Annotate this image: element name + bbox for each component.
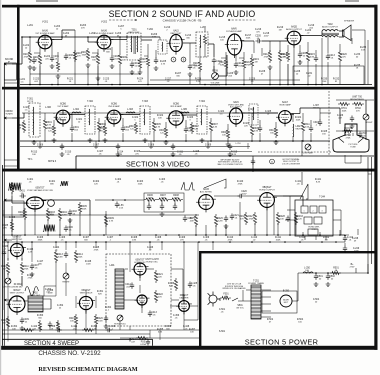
svg-text:SPEAKER: SPEAKER: [344, 20, 355, 23]
svg-text:12K: 12K: [94, 183, 98, 185]
wire section5 B+ out to yoke lines: [340, 264, 368, 273]
resistor R316: [134, 122, 137, 134]
terminal box row2 b: [314, 217, 322, 224]
potentiometer R412 vert hold: [5, 278, 11, 284]
waveform sync pulse W1: [8, 183, 21, 191]
ground under C501: [314, 282, 319, 286]
capacitor C314: [171, 144, 175, 150]
svg-text:1M: 1M: [191, 220, 194, 222]
svg-text:2.2K: 2.2K: [28, 251, 33, 253]
resistor R702: [352, 102, 364, 105]
speaker LS201: [342, 25, 351, 41]
section5 box top border: [199, 251, 378, 253]
svg-text:L-304: L-304: [73, 109, 80, 111]
capacitor C249: [343, 246, 347, 252]
resistor R216: [73, 50, 76, 62]
tube V402 6SN7 vertical oscillator: [8, 244, 26, 260]
svg-text:100K: 100K: [174, 197, 179, 199]
svg-text:4.7K: 4.7K: [109, 220, 114, 222]
svg-text:.0047: .0047: [241, 193, 247, 195]
wire V202 grid lead: [88, 41, 97, 43]
svg-text:L-204: L-204: [89, 33, 96, 35]
svg-text:L-303: L-303: [127, 109, 134, 111]
wire T201 to V203: [141, 39, 152, 41]
tube V205 6AQ5 audio output: [285, 31, 304, 48]
svg-text:RATIO DET: RATIO DET: [129, 31, 141, 34]
wire V205 plate to T202: [301, 35, 322, 37]
capacitor C421: [230, 214, 234, 220]
resistor R501: [330, 271, 341, 274]
coil T303: [143, 109, 146, 125]
capacitor C405: [173, 204, 177, 210]
wire video out to sweep tap: [320, 112, 331, 114]
resistor R302: [52, 124, 55, 136]
test point A: [171, 57, 176, 62]
resistor R310: [274, 126, 277, 138]
svg-text:2ND SOUND IF AMP: 2ND SOUND IF AMP: [94, 32, 114, 35]
wire V305 plate to CRT: [291, 113, 300, 115]
svg-text:1ST SOUND IF AMP: 1ST SOUND IF AMP: [35, 32, 55, 35]
svg-text:10K: 10K: [190, 331, 194, 333]
svg-text:8.2K: 8.2K: [232, 154, 237, 156]
svg-text:220K: 220K: [78, 256, 83, 258]
svg-text:2: 2: [313, 211, 314, 213]
transformer T303 dashed can: [140, 106, 150, 134]
capacitor C210: [130, 62, 134, 68]
tube V409 6BQ6 horizontal output: [257, 193, 277, 211]
unit T244 deflection box: [295, 200, 333, 236]
ground under C314: [171, 152, 176, 156]
svg-text:ON VOL: ON VOL: [236, 307, 245, 309]
wire B+ bus section2: [20, 84, 372, 86]
svg-text:10K: 10K: [222, 134, 226, 136]
coil L303: [126, 112, 135, 113]
wire vert osc couplings: [8, 235, 22, 286]
resistor R419: [74, 314, 77, 326]
wire sweep mid verticals2: [43, 279, 86, 330]
svg-text:10H: 10H: [305, 270, 309, 272]
ground under C415: [224, 224, 229, 228]
ground under C701: [350, 124, 355, 128]
svg-text:100K: 100K: [148, 197, 153, 199]
ground under C315: [228, 152, 233, 156]
capacitor C420: [238, 194, 244, 198]
capacitor C419: [106, 328, 112, 332]
svg-text:HEIGHT: HEIGHT: [62, 282, 70, 284]
transformer T302 dashed can: [85, 106, 95, 134]
svg-text:12K: 12K: [298, 218, 302, 220]
wire V204 grid from volume pot: [218, 75, 227, 77]
transformer T202 secondary: [322, 36, 338, 37]
resistor R307: [209, 120, 212, 133]
capacitor C410: [48, 322, 52, 328]
resistor R406: [144, 198, 157, 201]
ground at R306: [164, 140, 169, 144]
svg-text:470K: 470K: [264, 56, 269, 58]
capacitor C402: [68, 210, 72, 216]
terminal box row1 b: [310, 206, 317, 213]
resistor R432: [244, 212, 247, 225]
svg-text:120K: 120K: [322, 81, 327, 83]
tube V405 6SN7 horizontal oscillator: [132, 263, 149, 278]
wire vert output bottom: [2, 333, 150, 335]
svg-text:47K: 47K: [356, 110, 360, 112]
ground under T304: [200, 138, 205, 142]
wire video input lead: [12, 117, 24, 119]
audio coupling wire: [208, 43, 214, 45]
wire deflection box leads: [285, 210, 341, 240]
resistor R208: [203, 34, 206, 46]
svg-text:270K: 270K: [28, 277, 33, 279]
capacitor C407: [30, 264, 34, 270]
wire 4.5mc trap rail: [140, 151, 252, 153]
resistor R414: [74, 250, 77, 263]
wire V302 plate to T303: [121, 114, 140, 116]
svg-text:22K: 22K: [142, 61, 146, 63]
resistor R436: [174, 278, 177, 291]
resistor R304: [103, 124, 106, 136]
capacitor C409: [20, 318, 24, 324]
capacitor C301: [70, 126, 74, 132]
svg-text:1.8K: 1.8K: [132, 239, 137, 241]
junction dots band1 grid bus: [21, 36, 23, 38]
svg-text:1ST AUDIO AMP: 1ST AUDIO AMP: [226, 30, 242, 33]
capacitor C208: [64, 54, 68, 60]
svg-text:MAX. CLOCKWISE POSITION: MAX. CLOCKWISE POSITION: [218, 163, 243, 166]
wire CRT heater drop: [345, 155, 361, 163]
resistor R428: [276, 212, 279, 225]
svg-text:82K: 82K: [98, 293, 102, 295]
capacitor C418: [56, 328, 62, 332]
tube V201 6AU6 1st sound IF amp: [36, 35, 55, 52]
svg-text:1M: 1M: [325, 239, 328, 241]
blower motor B501: [280, 295, 292, 307]
box sync input network: [4, 201, 24, 217]
resistor R308: [226, 128, 229, 140]
fuse F501 element: [220, 296, 231, 299]
wire yoke leads top hook: [341, 174, 372, 235]
resistor R431: [82, 328, 94, 331]
resistor R422: [154, 290, 157, 303]
svg-text:470K: 470K: [238, 183, 243, 185]
resistor R306: [164, 126, 167, 138]
wire band1 stage supply taps: [34, 53, 244, 58]
left margin ticks: [4, 83, 17, 166]
tube V403 6K6 vertical output: [7, 296, 28, 315]
ground at R203: [56, 74, 61, 78]
svg-text:10K: 10K: [32, 154, 36, 156]
resistor R218: [198, 60, 201, 72]
wire ratio det out verticals: [190, 43, 200, 85]
svg-text:470K: 470K: [24, 56, 29, 58]
transformer T305 dashed can: [249, 104, 258, 125]
capacitor C412: [130, 283, 134, 289]
section5 box left border: [199, 251, 201, 346]
svg-text:SECTION 3 VIDEO: SECTION 3 VIDEO: [126, 160, 190, 169]
transformer T501 secondary leads: [261, 290, 271, 317]
ground at R201: [28, 65, 33, 69]
waveform horiz sawtooth W6: [204, 179, 226, 188]
capacitor C312: [60, 144, 64, 150]
svg-text:V-201: V-201: [42, 22, 49, 24]
ground under R212: [268, 65, 273, 69]
svg-text:470K: 470K: [249, 218, 254, 220]
wire blower to HV row: [292, 273, 302, 301]
wire vert disch leads: [76, 290, 96, 334]
coil T302: [88, 109, 91, 125]
outer right border: [374, 5, 377, 350]
wire sound input lead: [12, 63, 22, 65]
svg-text:INTERLOCK ON CHASSIS: INTERLOCK ON CHASSIS: [222, 287, 246, 290]
tube V204 6AV6 audio amp: [225, 34, 244, 58]
svg-text:22K: 22K: [244, 125, 248, 127]
resistor R435: [10, 220, 13, 232]
transformer T301 dashed can: [29, 103, 40, 137]
wire C205 to V205 grid: [262, 40, 287, 42]
resistor R214: [286, 50, 289, 62]
waveform sawtooth W3: [43, 225, 55, 232]
coil T201 secondary: [136, 36, 139, 52]
wire damper leads: [170, 295, 198, 320]
resistor R212: [268, 50, 271, 63]
wire video B+ bus: [20, 140, 330, 142]
ground under C212: [234, 70, 239, 74]
left margin lower rule: [2, 165, 4, 346]
svg-text:2.2M: 2.2M: [62, 214, 67, 216]
ground at R310: [274, 140, 279, 144]
ground under C402: [68, 218, 73, 222]
svg-text:2.2M: 2.2M: [218, 220, 223, 222]
resistor R204: [86, 48, 89, 61]
wire sweep bottom rail 2: [2, 329, 199, 331]
svg-text:10K: 10K: [70, 320, 74, 322]
capacitor C317: [251, 159, 255, 165]
svg-text:1ST IF: 1ST IF: [27, 101, 34, 103]
svg-text:2ND IF AMP: 2ND IF AMP: [108, 105, 120, 108]
potentiometer R312 contrast: [305, 144, 311, 150]
choke L501 filter: [303, 272, 313, 273]
wire horiz drive coupling: [244, 196, 303, 235]
wire output stage verticals: [328, 36, 352, 85]
tube V202 6AU6 2nd sound IF amp: [95, 35, 114, 52]
capacitor C202: [110, 56, 114, 62]
tube V406 horizontal discharge: [135, 295, 150, 308]
wire vert yoke leads: [43, 299, 51, 309]
capacitor C406: [64, 226, 68, 232]
resistor R301: [43, 118, 46, 131]
svg-text:L-206: L-206: [200, 27, 207, 29]
resistor R421: [154, 270, 157, 283]
wire V303 plate to T304: [183, 114, 197, 116]
wire V304 to V305: [243, 112, 278, 114]
transformer T402 vert output: [28, 296, 43, 312]
svg-text:HORIZ OSC: HORIZ OSC: [134, 262, 146, 264]
arrow to deflection: [4, 299, 12, 301]
capacitor C207: [314, 56, 318, 62]
wire horiz out plate to flyback: [274, 195, 303, 197]
coil T301 primary: [32, 107, 35, 123]
resistor R210: [224, 58, 227, 70]
transformer T201 core: [133, 36, 135, 54]
svg-text:3: 3: [322, 211, 323, 213]
capacitor C212: [234, 62, 238, 68]
dashed boundary video/unit700: [328, 91, 330, 156]
resistor R701: [338, 102, 350, 105]
capacitor C408: [64, 252, 68, 258]
separator section2/section3: [2, 87, 375, 90]
svg-text:1M: 1M: [279, 29, 282, 31]
resistor R205: [96, 53, 99, 66]
capacitor C56: [115, 202, 119, 208]
waveform sync pulse W2: [60, 181, 68, 186]
svg-text:SECTION 2 SOUND IF AND AUDIO: SECTION 2 SOUND IF AND AUDIO: [109, 9, 256, 19]
svg-text:1.5K: 1.5K: [119, 207, 124, 209]
capacitor C213: [326, 54, 330, 60]
ground under C409: [20, 326, 25, 330]
wire fuse drop: [129, 338, 131, 342]
wire video IF signal bus: [22, 112, 278, 114]
wire speaker leads: [339, 30, 344, 32]
svg-text:47K: 47K: [81, 27, 85, 29]
svg-text:SECTION 5 POWER: SECTION 5 POWER: [245, 337, 319, 346]
transformer T202 core lines: [322, 32, 339, 34]
wire band1 screen bus: [30, 73, 140, 75]
svg-text:27K: 27K: [180, 239, 184, 241]
wire CRT cathode lead: [339, 108, 341, 124]
resistor R303: [97, 120, 100, 133]
capacitor C502: [326, 274, 330, 280]
capacitor C205: [256, 39, 262, 43]
svg-text:CHASSIS NO. V-2192: CHASSIS NO. V-2192: [38, 350, 101, 357]
wire band1 interstage verticals: [30, 28, 316, 85]
outer bottom border: [0, 346, 378, 350]
resistor R220: [338, 50, 341, 63]
scan edge gray strip: [0, 0, 1, 375]
svg-text:470K: 470K: [94, 249, 99, 251]
capacitor C304: [258, 126, 262, 132]
svg-text:150K: 150K: [138, 183, 143, 185]
svg-text:T-302: T-302: [87, 101, 94, 103]
resistor R201: [28, 50, 31, 63]
wire V201 cathode to bus: [39, 66, 41, 85]
coil L305: [180, 112, 189, 113]
wire sweep B+ feed: [2, 214, 199, 216]
wire sweep verticals lower: [8, 242, 213, 334]
transformer T202 output primary: [322, 30, 338, 31]
svg-text:T-202: T-202: [147, 29, 154, 31]
resistor R405: [78, 202, 81, 214]
ground at R308: [226, 142, 231, 146]
svg-text:8.2K: 8.2K: [169, 285, 174, 287]
svg-text:POWER TRANS: POWER TRANS: [248, 282, 264, 285]
ground R205: [96, 76, 101, 80]
wire sync sep input: [12, 202, 28, 204]
svg-text:HORIZ OUTPUT: HORIZ OUTPUT: [259, 189, 275, 191]
resistor R410: [6, 262, 9, 275]
svg-text:250UH: 250UH: [313, 107, 320, 109]
ground under C203: [154, 66, 159, 70]
wire sweep bus upper: [2, 234, 345, 236]
coil L401 horiz osc coil: [115, 269, 124, 309]
coil T201 primary: [130, 36, 133, 52]
capacitor C315: [228, 144, 232, 150]
CRT flare hatching: [338, 138, 364, 143]
svg-text:T401: T401: [48, 215, 54, 217]
waveform horiz ramp W7: [300, 184, 308, 199]
svg-text:4.7K: 4.7K: [161, 63, 166, 65]
resistor R309: [250, 124, 253, 137]
svg-text:REVISED SCHEMATIC DIAGRAM: REVISED SCHEMATIC DIAGRAM: [38, 366, 137, 373]
svg-text:AUDIO OUTPUT: AUDIO OUTPUT: [286, 28, 302, 31]
wire sweep bottom rail: [120, 337, 199, 339]
resistor R433: [294, 212, 297, 225]
left margin wire vertical: [3, 64, 5, 346]
svg-text:8.2K: 8.2K: [316, 181, 321, 183]
resistor R704: [342, 129, 353, 132]
arrow sound IF input: [4, 63, 12, 65]
svg-text:56K: 56K: [84, 239, 88, 241]
wire unit700 feed: [336, 99, 374, 101]
switch S501: [217, 298, 243, 301]
ground under T302: [88, 138, 93, 142]
tube V305 6AG7 video amplifier: [276, 111, 294, 127]
transformer T501 power: [251, 285, 261, 319]
ground under C201: [50, 64, 55, 68]
wire section2 lower return: [150, 79, 300, 81]
capacitor C404: [160, 204, 164, 210]
ground under C502: [326, 282, 331, 286]
svg-text:1: 1: [304, 211, 305, 213]
wire V203 output: [183, 42, 196, 44]
picture tube V306 CRT: [333, 124, 369, 152]
svg-text:56K: 56K: [166, 328, 170, 330]
tube V304 6AL5 video detector: [227, 108, 245, 127]
svg-text:0.25A: 0.25A: [140, 343, 146, 346]
resistor R213: [278, 50, 281, 63]
capacitor C209: [32, 58, 36, 64]
wire video AGC bus: [20, 146, 250, 148]
svg-text:BRIGHT: BRIGHT: [365, 122, 373, 124]
svg-text:270K: 270K: [346, 137, 351, 139]
wire AFC drop to bus: [105, 211, 107, 235]
svg-text:68K: 68K: [194, 65, 198, 67]
svg-text:VERT OUT: VERT OUT: [30, 295, 41, 297]
waveform horiz spikes W5: [181, 182, 195, 190]
svg-text:MOT: MOT: [284, 302, 289, 304]
resistor R217: [138, 58, 141, 70]
terminal box row1 c: [319, 206, 326, 213]
resistor R404: [58, 208, 61, 221]
svg-text:R209: R209: [212, 71, 218, 73]
ground at R204: [86, 63, 91, 67]
svg-text:3.9K: 3.9K: [254, 130, 259, 132]
wire section5 HV row: [302, 272, 340, 274]
capacitor C248: [343, 236, 347, 242]
label strip SECTION 3 VIDEO rule: [76, 156, 374, 169]
wire sync sep plate out: [42, 199, 90, 201]
page fold tick marks top: [36, 0, 359, 2]
ground at R302: [52, 138, 57, 142]
capacitor C302: [121, 126, 125, 132]
coil T301 secondary: [32, 122, 35, 135]
svg-text:10K: 10K: [12, 328, 16, 330]
wire sweep bus lower: [2, 241, 345, 243]
wire video output tap: [252, 156, 254, 172]
wire video band right vertical: [301, 140, 303, 156]
coil L202: [161, 42, 164, 52]
ground C209: [32, 66, 37, 70]
ground under T303: [143, 138, 148, 142]
